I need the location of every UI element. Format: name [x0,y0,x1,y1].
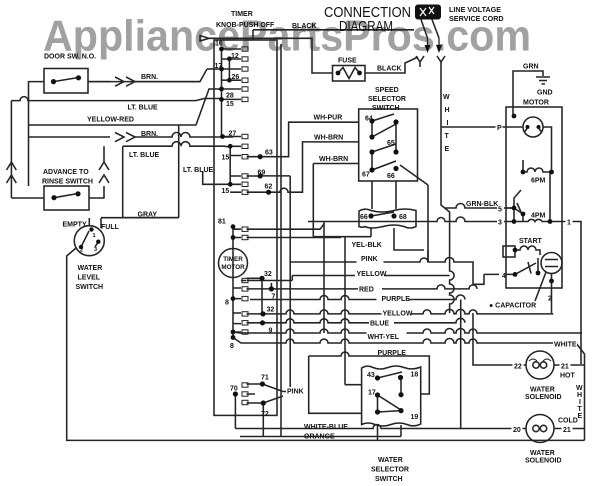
svg-text:I: I [447,120,449,127]
svg-text:62: 62 [265,184,273,191]
svg-text:START: START [519,238,543,245]
svg-text:RINSE SWITCH: RINSE SWITCH [42,179,93,186]
svg-text:64: 64 [365,116,373,123]
svg-text:ORANGE: ORANGE [304,434,335,441]
svg-text:T: T [578,406,583,413]
svg-text:71: 71 [261,375,269,382]
svg-text:8: 8 [225,300,229,307]
svg-text:YEL-BLK: YEL-BLK [352,242,382,249]
svg-text:7: 7 [272,294,276,301]
svg-text:3: 3 [94,247,97,253]
svg-text:BRN.: BRN. [141,131,158,138]
svg-text:18: 18 [411,372,419,379]
svg-text:MOTOR: MOTOR [523,100,549,107]
svg-text:GRN-BLK: GRN-BLK [466,201,498,208]
svg-text:E: E [445,146,450,153]
svg-text:70: 70 [230,386,238,393]
svg-text:WH-BRN: WH-BRN [314,135,343,142]
svg-text:PINK: PINK [287,389,304,396]
svg-text:LT. BLUE: LT. BLUE [129,152,160,159]
svg-text:17: 17 [215,63,223,70]
svg-text:67: 67 [362,172,370,179]
svg-text:WATER: WATER [378,457,403,464]
svg-text:BLACK: BLACK [377,66,402,73]
svg-text:WATER: WATER [530,387,555,394]
svg-text:FUSE: FUSE [338,58,357,65]
svg-text:BLACK: BLACK [292,23,317,30]
svg-text:26: 26 [232,74,240,81]
svg-text:GRN: GRN [523,64,539,71]
svg-text:17: 17 [368,390,376,397]
svg-text:ADVANCE TO: ADVANCE TO [43,169,89,176]
svg-text:LT. BLUE: LT. BLUE [128,105,159,112]
svg-text:MOTOR: MOTOR [221,264,245,271]
svg-text:SPEED: SPEED [375,87,399,94]
svg-text:FULL: FULL [101,224,120,231]
svg-text:RED: RED [359,287,374,294]
svg-text:DIAGRAM: DIAGRAM [339,18,393,35]
svg-text:1: 1 [93,233,96,239]
svg-text:YELLOW: YELLOW [383,311,413,318]
svg-text:72: 72 [261,411,269,418]
svg-text:6PM: 6PM [531,178,546,185]
svg-text:43: 43 [367,372,375,379]
svg-text:66: 66 [360,214,368,221]
svg-text:PURPLE: PURPLE [382,296,411,303]
svg-text:SWITCH: SWITCH [372,105,400,112]
svg-text:WHT-YEL: WHT-YEL [368,334,400,341]
svg-text:H: H [445,107,450,114]
svg-text:22: 22 [514,364,522,371]
svg-text:2: 2 [548,296,552,303]
svg-text:PURPLE: PURPLE [378,350,407,357]
svg-text:3: 3 [498,220,502,227]
svg-text:LT. BLUE: LT. BLUE [183,167,214,174]
svg-text:SWITCH: SWITCH [76,284,104,291]
svg-text:KNOB-PUSH OFF: KNOB-PUSH OFF [216,22,275,29]
svg-text:1: 1 [567,220,571,227]
svg-text:LEVEL: LEVEL [78,275,101,282]
svg-text:69: 69 [258,170,266,177]
svg-text:65: 65 [387,140,395,147]
svg-text:SOLENOID: SOLENOID [525,394,562,401]
svg-text:27: 27 [229,131,237,138]
svg-text:GRAY: GRAY [138,212,158,219]
svg-text:TIMER: TIMER [231,11,253,18]
svg-text:HOT: HOT [560,373,576,380]
svg-text:WATER: WATER [78,265,103,272]
svg-text:WATER: WATER [530,450,555,457]
svg-text:EMPTY: EMPTY [63,222,87,229]
svg-text:SWITCH: SWITCH [375,476,403,483]
svg-text:BLUE: BLUE [370,321,389,328]
svg-text:28: 28 [226,93,234,100]
svg-text:16: 16 [215,41,223,48]
svg-text:YELLOW: YELLOW [357,271,387,278]
svg-text:PINK: PINK [361,256,378,263]
svg-text:WHITE-BLUE: WHITE-BLUE [304,424,348,431]
svg-text:32: 32 [267,307,275,314]
svg-text:TIMER: TIMER [223,256,243,263]
svg-text:WH-PUR: WH-PUR [314,115,343,122]
svg-text:15: 15 [222,155,230,162]
svg-text:81: 81 [218,219,226,226]
svg-text:BRN.: BRN. [141,74,158,81]
svg-text:68: 68 [399,214,407,221]
svg-text:T: T [445,133,450,140]
svg-text:SOLENOID: SOLENOID [525,458,562,465]
svg-text:H: H [577,392,582,399]
svg-text:● CAPACITOR: ● CAPACITOR [489,303,536,310]
svg-text:E: E [578,413,583,420]
svg-text:66: 66 [387,173,395,180]
svg-text:WH-BRN: WH-BRN [319,156,348,163]
svg-text:W: W [576,385,583,392]
svg-text:SELECTOR: SELECTOR [371,467,409,474]
svg-text:21: 21 [561,364,569,371]
svg-text:YELLOW-RED: YELLOW-RED [87,117,134,124]
svg-text:12: 12 [231,53,239,60]
svg-text:15: 15 [222,188,230,195]
svg-text:19: 19 [411,414,419,421]
svg-text:32: 32 [264,271,272,278]
svg-text:WHITE: WHITE [554,342,577,349]
svg-text:SERVICE CORD: SERVICE CORD [449,14,504,23]
svg-text:63: 63 [265,150,273,157]
svg-text:GND: GND [537,90,553,97]
svg-text:P: P [497,125,502,132]
svg-text:COLD: COLD [558,418,578,425]
svg-text:15: 15 [226,101,234,108]
svg-text:W: W [443,94,450,101]
svg-text:DOOR SW. N.O.: DOOR SW. N.O. [44,54,96,61]
svg-text:I: I [579,399,581,406]
svg-text:2: 2 [80,248,83,254]
svg-text:5: 5 [498,207,502,214]
svg-text:4PM: 4PM [531,213,546,220]
svg-text:8: 8 [230,343,234,350]
svg-text:9: 9 [269,328,273,335]
svg-text:4: 4 [502,273,506,280]
svg-text:SELECTOR: SELECTOR [368,96,406,103]
svg-text:20: 20 [513,427,521,434]
svg-text:LINE VOLTAGE: LINE VOLTAGE [449,5,501,14]
svg-text:21: 21 [563,427,571,434]
